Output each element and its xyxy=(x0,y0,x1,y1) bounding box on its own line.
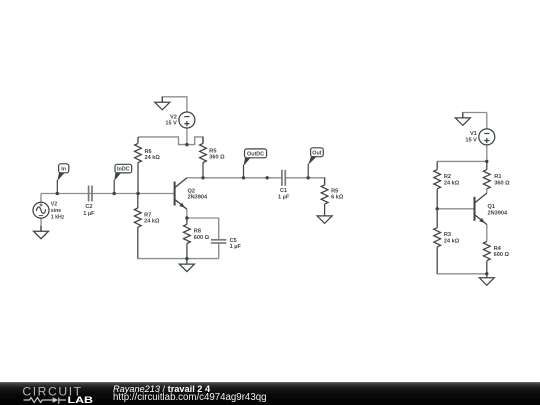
svg-text:1 kHz: 1 kHz xyxy=(51,215,65,221)
wire V1 top lead xyxy=(486,113,488,130)
svg-text:C5: C5 xyxy=(230,238,237,244)
svg-text:600 Ω: 600 Ω xyxy=(194,235,210,241)
junction bottom ground node xyxy=(485,272,488,275)
svg-text:Out: Out xyxy=(312,150,321,156)
svg-text:360 Ω: 360 Ω xyxy=(209,155,225,161)
junction R6/R7 node xyxy=(136,192,139,195)
flag OutDC xyxy=(244,149,267,178)
capacitor C5 xyxy=(211,238,241,250)
svg-text:InDC: InDC xyxy=(117,167,130,173)
resistor R3 xyxy=(434,209,460,274)
svg-text:R4: R4 xyxy=(494,246,502,252)
svg-text:Q1: Q1 xyxy=(488,204,495,210)
ground right top xyxy=(455,112,470,125)
capacitor C2 xyxy=(83,186,95,217)
flag InDC xyxy=(114,164,132,193)
junction Q1 base node xyxy=(436,207,439,210)
ground left circuit bottom xyxy=(179,259,194,272)
flag Out xyxy=(308,148,323,178)
junction Out stem xyxy=(307,176,310,179)
wire bottom rail (left circuit) xyxy=(138,258,219,260)
svg-text:24 kΩ: 24 kΩ xyxy=(444,180,460,186)
wire Q1 emitter lead xyxy=(486,225,488,242)
svg-text:C1: C1 xyxy=(280,188,287,194)
svg-text:Q2: Q2 xyxy=(188,188,195,194)
svg-text:V2: V2 xyxy=(51,201,57,207)
junction R5/collector xyxy=(201,176,204,179)
svg-text:R1: R1 xyxy=(494,174,501,180)
resistor R5 (360) xyxy=(200,137,226,178)
svg-text:In: In xyxy=(61,167,66,173)
flag In xyxy=(57,164,68,194)
junction emitter node xyxy=(185,216,188,219)
CircuitLab logo xyxy=(0,382,110,405)
svg-text:V1: V1 xyxy=(470,131,477,137)
svg-text:6 kΩ: 6 kΩ xyxy=(331,195,344,201)
svg-text:1 µF: 1 µF xyxy=(230,244,242,250)
voltage source V2 (sine) xyxy=(33,201,65,220)
transistor Q1 xyxy=(475,193,508,224)
ground right circuit bottom xyxy=(479,272,494,285)
wire C1 to Out node xyxy=(285,177,308,179)
svg-text:2N3904: 2N3904 xyxy=(488,211,508,217)
junction In stem xyxy=(56,192,59,195)
junction V1/rail/R1 xyxy=(485,160,488,163)
wire V1 bottom lead xyxy=(486,145,488,162)
svg-text:15 V: 15 V xyxy=(165,121,177,127)
svg-text:2N3904: 2N3904 xyxy=(188,195,208,201)
svg-text:1 µF: 1 µF xyxy=(83,211,95,217)
wire V2 top lead xyxy=(40,194,42,203)
ground below R5 (6k) xyxy=(317,210,332,223)
wire V2(15V) bottom lead xyxy=(186,128,188,145)
resistor R6 xyxy=(135,137,161,194)
svg-text:R2: R2 xyxy=(444,174,451,180)
wire collector rail to C1 xyxy=(187,177,282,179)
footer title xyxy=(113,385,210,394)
svg-text:sine: sine xyxy=(51,208,61,214)
wire V2(15V) top to ground xyxy=(162,97,187,113)
wire V1 top to ground xyxy=(463,113,487,118)
ground below V2 sine xyxy=(34,226,49,239)
svg-text:24 kΩ: 24 kΩ xyxy=(144,219,160,225)
resistor R1 xyxy=(483,161,510,188)
svg-text:24 kΩ: 24 kΩ xyxy=(444,239,460,245)
wire V2 bottom to ground xyxy=(40,218,42,231)
resistor R2 xyxy=(434,161,460,208)
wire input line (V2 to Q2 base) xyxy=(41,193,174,195)
svg-text:R7: R7 xyxy=(144,213,151,219)
junction InDC stem xyxy=(113,192,116,195)
resistor R8 xyxy=(184,218,210,259)
wire emitter node to C5 top xyxy=(187,218,219,240)
footer url xyxy=(113,393,266,403)
svg-text:15 V: 15 V xyxy=(465,138,477,144)
svg-text:R8: R8 xyxy=(194,229,201,235)
wire Out node to R5 (6k) xyxy=(308,178,324,185)
svg-text:C2: C2 xyxy=(85,204,92,210)
resistor R5 (6k) xyxy=(321,178,344,211)
svg-text:1 µF: 1 µF xyxy=(278,195,290,201)
svg-text:360 Ω: 360 Ω xyxy=(494,180,510,186)
resistor R4 xyxy=(483,242,509,274)
svg-text:24 kΩ: 24 kΩ xyxy=(145,155,161,161)
junction wire joint xyxy=(266,176,269,179)
wire Q1 collector lead xyxy=(486,189,488,193)
svg-text:R3: R3 xyxy=(444,232,451,238)
wire C5 bottom xyxy=(218,243,220,259)
svg-text:R5: R5 xyxy=(331,188,338,194)
junction OutDC stem xyxy=(242,176,245,179)
junction bottom rail ground node xyxy=(185,257,188,260)
svg-text:LAB: LAB xyxy=(68,395,94,405)
transistor Q2 xyxy=(175,178,208,209)
ground top left xyxy=(155,97,170,110)
wire bottom rail (right circuit) xyxy=(437,273,487,275)
wire Q2 emitter lead xyxy=(186,209,188,218)
wire supply staircase R6-V2-R5 xyxy=(138,137,203,145)
voltage source V2 (15 V) xyxy=(165,112,195,128)
resistor R7 xyxy=(134,194,160,259)
capacitor C1 xyxy=(278,170,290,201)
svg-text:V2: V2 xyxy=(170,114,177,120)
svg-text:600 Ω: 600 Ω xyxy=(494,252,510,258)
wire Q1 base xyxy=(437,208,474,210)
junction V2 supply node xyxy=(185,143,188,146)
svg-text:OutDC: OutDC xyxy=(247,152,264,158)
wire top rail (right circuit) xyxy=(437,160,487,162)
voltage source V1 xyxy=(465,129,494,145)
